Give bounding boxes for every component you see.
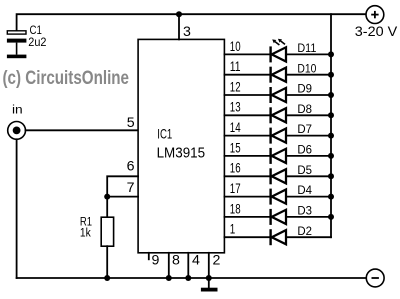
wire D2 anode to rail — [286, 236, 331, 238]
LED D10 — [271, 67, 286, 83]
svg-text:LM3915: LM3915 — [157, 145, 206, 161]
svg-text:11: 11 — [230, 59, 241, 74]
junction dot pin 3 / top rail — [176, 11, 182, 17]
svg-text:18: 18 — [230, 201, 241, 216]
ground (main) — [201, 278, 218, 292]
LED D9 — [271, 87, 286, 103]
IC IC1 LM3915 body — [138, 39, 224, 252]
wire D11 anode to rail — [286, 53, 331, 55]
wire pin 3 to top rail — [178, 14, 180, 39]
wire pin 6 — [107, 176, 138, 196]
wire node to R1 — [106, 197, 108, 218]
svg-text:D11: D11 — [297, 41, 316, 55]
capacitor C1 — [7, 31, 27, 55]
svg-text:D8: D8 — [297, 102, 312, 116]
LED D7 — [271, 128, 286, 144]
LED D3 — [271, 209, 286, 225]
wire pin 7 — [107, 196, 138, 198]
wire pin 12 to LED D9 cathode — [224, 94, 270, 96]
svg-text:D7: D7 — [297, 122, 312, 136]
wire pin 4 to bottom rail — [187, 253, 189, 278]
svg-text:D10: D10 — [297, 61, 316, 75]
svg-text:D5: D5 — [297, 163, 312, 177]
resistor R1 — [101, 217, 113, 246]
LED D11 — [271, 39, 286, 63]
junction dot D6 / anode rail — [328, 153, 334, 159]
junction dot D9 / anode rail — [328, 92, 334, 98]
junction dot D7 / anode rail — [328, 133, 334, 139]
junction dot D11 / anode rail — [328, 51, 334, 57]
svg-text:in: in — [12, 103, 23, 117]
junction dot D4 / anode rail — [328, 194, 334, 200]
junction dot pin 8 / bottom rail — [166, 275, 172, 281]
junction dot pin 4 / bottom rail — [185, 275, 191, 281]
svg-text:15: 15 — [230, 140, 241, 155]
junction dot D3 / anode rail — [328, 214, 334, 220]
svg-text:2: 2 — [213, 252, 221, 268]
ground (below C1) — [7, 55, 27, 59]
wire D5 anode to rail — [286, 175, 331, 177]
junction dot D10 / anode rail — [328, 72, 334, 78]
wire pin 8 to bottom rail — [168, 253, 170, 278]
wire pin 11 to LED D10 cathode — [224, 74, 270, 76]
wire pin 2 to bottom rail — [208, 253, 210, 278]
svg-text:1k: 1k — [80, 226, 92, 240]
svg-text:10: 10 — [230, 39, 241, 54]
wire input to IC pin 5 — [26, 129, 139, 131]
battery terminal + (supply) — [366, 6, 384, 24]
svg-text:7: 7 — [127, 180, 135, 196]
svg-text:8: 8 — [172, 252, 180, 268]
svg-text:D9: D9 — [297, 82, 312, 96]
wire D9 anode to rail — [286, 94, 331, 96]
svg-text:4: 4 — [192, 252, 200, 268]
wire D7 anode to rail — [286, 135, 331, 137]
LED D5 — [271, 168, 286, 184]
svg-text:9: 9 — [152, 252, 160, 268]
wire D6 anode to rail — [286, 155, 331, 157]
wire R1 to bottom rail — [106, 246, 108, 278]
wire D10 anode to rail — [286, 74, 331, 76]
LED D4 — [271, 189, 286, 205]
LED D8 — [271, 107, 286, 123]
junction dot pin 2 / bottom rail — [206, 275, 212, 281]
wire D4 anode to rail — [286, 196, 331, 198]
wire pin 10 to LED D11 cathode — [224, 53, 270, 55]
battery terminal - (supply return) — [366, 269, 384, 287]
wire D3 anode to rail — [286, 216, 331, 218]
svg-text:D3: D3 — [297, 204, 312, 218]
svg-text:D6: D6 — [297, 143, 312, 157]
junction dot R1 / bottom rail — [104, 275, 110, 281]
wire pin 15 to LED D6 cathode — [224, 155, 270, 157]
wire pin 1 to LED D2 cathode — [224, 236, 270, 238]
wire pin 16 to LED D5 cathode — [224, 175, 270, 177]
svg-text:13: 13 — [230, 100, 241, 115]
pin 9 stub — [148, 253, 150, 259]
svg-text:(c) CircuitsOnline: (c) CircuitsOnline — [3, 68, 130, 89]
svg-text:6: 6 — [127, 159, 135, 175]
svg-text:D4: D4 — [297, 183, 312, 197]
wire input ground down to bottom rail — [16, 139, 18, 278]
wire pin 18 to LED D3 cathode — [224, 216, 270, 218]
wire pin 13 to LED D8 cathode — [224, 114, 270, 116]
wire pin 17 to LED D4 cathode — [224, 196, 270, 198]
svg-text:17: 17 — [230, 181, 241, 196]
wire pin 14 to LED D7 cathode — [224, 135, 270, 137]
LED D2 — [271, 229, 286, 245]
svg-text:14: 14 — [230, 120, 241, 135]
svg-text:IC1: IC1 — [157, 126, 172, 142]
svg-text:2u2: 2u2 — [28, 35, 46, 49]
wire top positive supply rail — [17, 14, 366, 31]
svg-text:D2: D2 — [297, 224, 312, 238]
wire LED anode rail — [330, 14, 332, 237]
svg-text:3: 3 — [183, 24, 191, 40]
svg-text:5: 5 — [127, 115, 135, 131]
svg-text:12: 12 — [230, 79, 241, 94]
junction dot D5 / anode rail — [328, 173, 334, 179]
wire D8 anode to rail — [286, 114, 331, 116]
junction dot pin 7 / divider node — [104, 194, 110, 200]
LED D6 — [271, 148, 286, 164]
svg-text:3-20 V: 3-20 V — [355, 24, 397, 39]
svg-text:16: 16 — [230, 161, 241, 176]
wire bottom negative rail — [17, 277, 367, 279]
svg-text:1: 1 — [230, 222, 236, 237]
junction dot D8 / anode rail — [328, 112, 334, 118]
connector "in" input jack — [8, 121, 26, 139]
